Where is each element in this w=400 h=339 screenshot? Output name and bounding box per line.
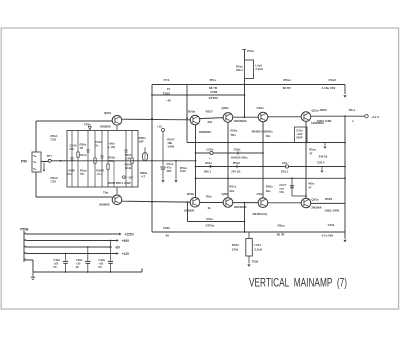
svg-text:C5x0: C5x0 xyxy=(328,78,336,82)
wire rail +225V xyxy=(27,233,119,235)
wire C510 ground stub xyxy=(344,85,346,95)
svg-text:+12V: +12V xyxy=(122,252,130,256)
svg-text:C50x: C50x xyxy=(163,226,170,230)
svg-text:56: 56 xyxy=(166,233,170,237)
svg-text:R523: R523 xyxy=(232,243,239,247)
svg-text:D51x: D51x xyxy=(205,161,212,165)
svg-text:50: 50 xyxy=(53,265,57,269)
wire input vertical x36 lower xyxy=(35,172,37,197)
diode D505 on line2 xyxy=(210,151,213,154)
node feed-bus xyxy=(244,84,246,86)
svg-text:R5x2: R5x2 xyxy=(233,161,240,165)
wire input bus y160.8 xyxy=(67,160,196,162)
node x187-y118 xyxy=(186,117,188,119)
svg-text:TP?: TP? xyxy=(47,154,53,158)
wire Q503 collector to Q505 base xyxy=(122,118,191,121)
wire input bottom y197 xyxy=(36,196,112,198)
svg-text:TRx: TRx xyxy=(230,133,236,137)
svg-text:2N3906: 2N3906 xyxy=(184,209,195,213)
wire vertical Q509 column x306 xyxy=(305,122,307,199)
svg-text:4.15u 50V: 4.15u 50V xyxy=(322,86,336,90)
svg-text:2N4304 (S): 2N4304 (S) xyxy=(252,129,267,133)
svg-text:B50x: B50x xyxy=(188,109,196,113)
svg-text:C508: C508 xyxy=(210,90,217,94)
wire bus y221.5 xyxy=(188,221,245,223)
wire rail +95V xyxy=(27,240,116,242)
transistor Q510 xyxy=(223,198,233,208)
svg-text:R5.x: R5.x xyxy=(210,78,217,82)
test point TP1 open circle xyxy=(48,159,51,162)
wire bus y232 xyxy=(152,231,345,233)
wire Q508-Q509 xyxy=(268,116,301,118)
diode D506 on line2 xyxy=(237,151,239,155)
svg-text:~45: ~45 xyxy=(166,99,171,103)
svg-text:2.2uH: 2.2uH xyxy=(254,247,262,251)
wire ladder line1 y142.5 xyxy=(187,142,345,144)
svg-text:P50: P50 xyxy=(21,160,27,164)
svg-text:C511: C511 xyxy=(328,223,335,227)
wire Q506-Q510 xyxy=(200,202,223,204)
svg-text:R517: R517 xyxy=(206,109,214,113)
transistor Q511 xyxy=(258,198,268,208)
wire Q504 base to box xyxy=(116,187,118,195)
svg-text:1/T50x: 1/T50x xyxy=(205,224,214,228)
small mark on line3 x322 xyxy=(321,167,323,171)
wire output bottom y203.4 xyxy=(311,202,345,204)
svg-text:7x: 7x xyxy=(95,144,99,148)
svg-text:TP5x: TP5x xyxy=(84,122,91,126)
svg-text:50: 50 xyxy=(98,265,102,269)
ground arrow x345 top xyxy=(343,95,346,98)
resistor R507 lead xyxy=(162,132,164,166)
svg-text:C50 4: C50 4 xyxy=(317,161,325,165)
wire vertical Q505 emitter column x195.5 xyxy=(195,125,197,197)
wire rail y95 xyxy=(152,94,245,96)
svg-text:240 18: 240 18 xyxy=(319,155,328,159)
wire ladder line3 y166.5 xyxy=(196,166,346,168)
ground arrow x345 bottom xyxy=(343,240,346,243)
svg-text:C50: C50 xyxy=(51,138,57,142)
svg-text:2.2uH: 2.2uH xyxy=(255,67,263,71)
svg-text:B50x: B50x xyxy=(187,192,195,196)
wire feed x244.5 to bus xyxy=(244,79,246,118)
capacitor C513 box xyxy=(295,127,308,143)
node x152-y202 xyxy=(151,201,153,203)
svg-text:3x: 3x xyxy=(208,206,212,210)
terminal +225V pin xyxy=(242,49,246,51)
resistor R508 leg x176 xyxy=(175,160,177,162)
ground arrow L501 xyxy=(247,264,250,266)
wire Q510-Q511 xyxy=(233,202,258,204)
svg-text:16F: 16F xyxy=(166,169,171,173)
wire ladder line2 y153 xyxy=(196,152,263,154)
svg-text:C50x: C50x xyxy=(206,148,213,152)
svg-text:50: 50 xyxy=(76,265,80,269)
small mark on line1 x325 xyxy=(324,143,326,147)
svg-text:4.7: 4.7 xyxy=(141,174,145,178)
svg-text:39x: 39x xyxy=(266,189,271,193)
wire ladder right rail x345 xyxy=(344,116,346,203)
svg-text:Q51x: Q51x xyxy=(311,108,319,112)
bypass capacitor C491 xyxy=(87,246,89,248)
transistor Q508 xyxy=(258,112,268,122)
wire Q504 collector y202 xyxy=(122,200,190,203)
svg-text:1N4152 250x: 1N4152 250x xyxy=(231,156,248,160)
transistor Q504 (bottom-left) xyxy=(112,195,122,205)
wire vertical x187 lower xyxy=(187,202,189,221)
svg-text:R5.x: R5.x xyxy=(349,108,356,112)
svg-text:R520: R520 xyxy=(320,108,328,112)
wire TP1 to input network xyxy=(51,160,67,162)
wire input vertical x36 upper xyxy=(35,121,37,152)
svg-text:VERTICAL MAINAMP (7): VERTICAL MAINAMP (7) xyxy=(249,275,347,289)
svg-text:Q50x: Q50x xyxy=(104,111,112,115)
svg-text:39x: 39x xyxy=(207,120,212,124)
svg-text:2N3906: 2N3906 xyxy=(311,205,322,209)
wire Q505-Q507 xyxy=(200,118,223,119)
ground arrow x163 xyxy=(161,180,164,182)
svg-text:220k: 220k xyxy=(232,247,239,251)
wire output top y116 xyxy=(311,115,365,117)
svg-text:T500: T500 xyxy=(252,259,259,263)
transistor Q507 xyxy=(223,113,233,123)
node x152-y95 xyxy=(151,94,153,96)
svg-text:4.7u 50V: 4.7u 50V xyxy=(322,234,334,238)
inductor L501 box xyxy=(246,239,253,257)
svg-text:T500: T500 xyxy=(163,91,170,95)
diode D510 on line3 xyxy=(209,165,211,167)
wire ground pin5 xyxy=(27,260,33,272)
svg-text:R5xx: R5xx xyxy=(283,78,291,82)
lamp DS500 xyxy=(144,147,146,152)
wire C511 ground stub xyxy=(344,232,346,239)
svg-text:P50B: P50B xyxy=(20,227,29,231)
wire vertical x187 upper xyxy=(186,85,188,143)
input network box xyxy=(67,131,138,188)
transistor Q505 xyxy=(190,115,200,125)
svg-text:1.4F: 1.4F xyxy=(125,157,131,161)
svg-text:T9x: T9x xyxy=(103,191,109,195)
svg-text:27x: 27x xyxy=(67,172,72,176)
transistor Q503 xyxy=(112,116,122,126)
svg-text:C50x: C50x xyxy=(234,148,241,152)
svg-text:R5xx: R5xx xyxy=(278,224,286,228)
svg-text:68 7R: 68 7R xyxy=(283,86,292,90)
svg-text:L501: L501 xyxy=(254,243,261,247)
svg-text:+12: +12 xyxy=(157,125,162,129)
wire L501 to ground xyxy=(248,256,250,263)
svg-text:12.9F: 12.9F xyxy=(125,166,133,170)
svg-text:47: 47 xyxy=(309,152,313,156)
connector P50 xyxy=(32,152,41,172)
svg-text:18F: 18F xyxy=(139,140,144,144)
svg-text:C5x4: C5x4 xyxy=(80,153,87,157)
wire +rail bus y84.5 xyxy=(152,84,345,86)
transistor Q509 xyxy=(301,112,311,122)
stub pin3 xyxy=(43,163,45,171)
capacitor C517 jog xyxy=(292,178,306,196)
wire Q503 emitter to box xyxy=(116,125,118,130)
wire vertical Q508 column x263 xyxy=(262,122,264,198)
svg-text:D51.1: D51.1 xyxy=(281,169,289,173)
svg-text:39x: 39x xyxy=(266,134,271,138)
box internal component legs xyxy=(71,131,73,188)
svg-text:2N3906A: 2N3906A xyxy=(199,130,212,134)
svg-text:+1x V: +1x V xyxy=(371,115,380,119)
svg-text:C5x: C5x xyxy=(282,161,288,165)
wire vertical Q507 column x228 xyxy=(227,122,229,197)
svg-text:FT.1: FT.1 xyxy=(164,78,170,82)
svg-text:P5xx: P5xx xyxy=(247,49,254,53)
svg-text:1/T500: 1/T500 xyxy=(208,96,218,100)
svg-text:47: 47 xyxy=(167,87,171,91)
svg-text:+95V: +95V xyxy=(122,239,130,243)
bypass capacitor C492 xyxy=(110,240,112,242)
wire rail -8V xyxy=(27,246,110,248)
svg-text:~12F: ~12F xyxy=(127,175,134,179)
svg-text:C50x: C50x xyxy=(257,192,265,196)
svg-text:R522: R522 xyxy=(325,197,333,201)
svg-text:Q50x: Q50x xyxy=(222,106,230,110)
svg-text:C50x: C50x xyxy=(257,106,265,110)
wire Q507-Q508 xyxy=(233,116,258,118)
wire vertical x244.5 lower xyxy=(244,203,246,232)
node bus-x152 xyxy=(151,160,153,162)
resistor R5x2 on line3 xyxy=(236,165,238,169)
svg-text:2N4303 (S): 2N4303 (S) xyxy=(253,212,268,216)
ground arrow x176 xyxy=(174,180,177,182)
svg-text:+225V: +225V xyxy=(124,233,134,237)
svg-text:C5xx: C5xx xyxy=(206,217,213,221)
svg-text:500F: 500F xyxy=(296,136,303,140)
svg-text:HD2369A: HD2369A xyxy=(234,205,248,209)
svg-text:+5.x: +5.x xyxy=(96,172,102,176)
node out-x345 xyxy=(344,115,346,117)
resistor R515 / L500 box xyxy=(245,60,254,79)
svg-text:1N5.1: 1N5.1 xyxy=(204,169,212,173)
svg-text:+: + xyxy=(209,156,211,160)
svg-text:2N3906: 2N3906 xyxy=(100,124,111,128)
svg-text:68 7R: 68 7R xyxy=(277,233,286,237)
svg-text:Q51x: Q51x xyxy=(311,197,319,201)
svg-text:R5x: R5x xyxy=(206,194,212,198)
transistor Q506 xyxy=(190,198,200,208)
box internal component marks xyxy=(70,158,73,160)
wire P50 middle pin to test point xyxy=(41,160,48,163)
wire ladder line4 y178.3 xyxy=(196,177,346,179)
svg-text:C50: C50 xyxy=(51,180,57,184)
svg-text:100Ω 1/4W: 100Ω 1/4W xyxy=(324,208,339,212)
svg-text:39x: 39x xyxy=(229,189,234,193)
svg-text:6.2k: 6.2k xyxy=(180,169,186,173)
wire feed x244.5 upper xyxy=(244,50,246,60)
svg-text:100Ω 1/4W: 100Ω 1/4W xyxy=(317,119,332,123)
node feed-y95 xyxy=(244,94,246,96)
svg-text:50x: 50x xyxy=(279,190,284,194)
wire vertical x152 main xyxy=(151,85,153,232)
diode D511 on line3 xyxy=(285,165,288,168)
svg-text:2M: 2M xyxy=(70,147,75,151)
wire ground bus y272 xyxy=(33,268,142,272)
wire x345 lower link xyxy=(344,204,346,232)
node x244.5 bottom wire xyxy=(244,202,246,204)
transistor Q512 xyxy=(301,198,311,208)
terminal +12 open circle xyxy=(162,129,165,132)
chassis ground mark xyxy=(31,272,35,279)
node x187-y95 xyxy=(186,94,188,96)
svg-text:HD2369A: HD2369A xyxy=(234,119,248,123)
svg-text:47: 47 xyxy=(308,186,312,190)
svg-text:(~45): (~45) xyxy=(108,145,115,149)
node feed-wire xyxy=(244,116,246,118)
wire rail +12V xyxy=(27,253,116,255)
wire feed to L501 xyxy=(248,232,250,239)
wire input top y121 xyxy=(36,120,112,122)
wire Q511-Q512 xyxy=(268,202,301,204)
svg-text:-8V: -8V xyxy=(115,246,121,250)
svg-text:R500 R50.1 1/4W: R500 R50.1 1/4W xyxy=(108,181,131,185)
svg-text:1/4W: 1/4W xyxy=(167,144,174,148)
svg-text:22k.x: 22k.x xyxy=(236,68,244,72)
node input junction xyxy=(60,160,62,162)
svg-text:270 1Ω: 270 1Ω xyxy=(231,169,241,173)
terminal output signal xyxy=(365,115,368,118)
bypass capacitor C490 xyxy=(65,253,67,255)
capacitor C515 xyxy=(160,166,165,168)
svg-text:Q50x: Q50x xyxy=(222,192,230,196)
node x152 on y118 wire xyxy=(151,118,153,120)
svg-text:2N3906: 2N3906 xyxy=(99,202,110,206)
